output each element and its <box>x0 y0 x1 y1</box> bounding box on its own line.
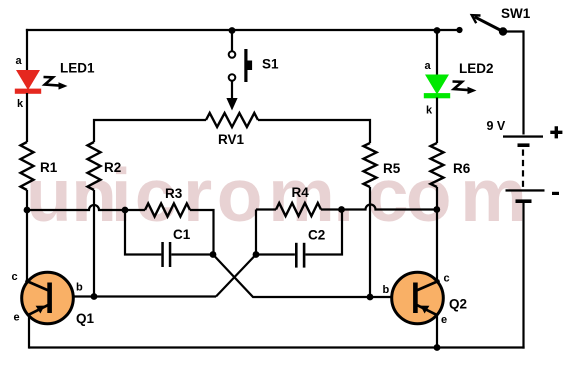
minus sign <box>552 192 559 195</box>
capacitor C2 <box>295 243 305 268</box>
svg-text:R5: R5 <box>383 161 401 176</box>
wire Q1 collector from rail <box>26 210 28 281</box>
plus sign <box>550 126 562 138</box>
capacitor C1 <box>161 242 171 267</box>
svg-text:LED1: LED1 <box>60 61 95 76</box>
svg-text:C1: C1 <box>173 227 191 242</box>
svg-text:C2: C2 <box>308 228 325 243</box>
LED1 light arrow <box>44 77 68 90</box>
wire R5 down to Q2 base <box>369 187 371 297</box>
potentiometer RV1 zigzag <box>206 113 258 127</box>
resistor R3 <box>145 204 190 217</box>
svg-text:SW1: SW1 <box>501 6 531 21</box>
wire S1 to RV1 wiper arrow <box>231 81 233 100</box>
node R2 / Q1 base <box>91 293 98 300</box>
wire Q1 base line <box>50 295 216 297</box>
wire LED1 to R1 <box>26 93 28 142</box>
svg-text:b: b <box>383 284 390 296</box>
svg-text:Q2: Q2 <box>449 297 467 312</box>
svg-text:e: e <box>14 312 20 324</box>
wire Q2 emitter down <box>436 315 438 348</box>
resistor R6 <box>431 143 444 187</box>
node LED2 top <box>434 27 441 34</box>
node C1 right / R3 <box>210 251 217 258</box>
svg-text:RV1: RV1 <box>218 132 245 147</box>
svg-text:R2: R2 <box>104 160 121 175</box>
wire SW1 to battery <box>503 32 524 135</box>
wire Q1 emitter down <box>28 315 30 349</box>
wire left drop to LED1 <box>26 29 28 71</box>
svg-text:a: a <box>16 55 23 67</box>
LED1 (red) <box>15 70 41 94</box>
node S1 top <box>229 27 236 34</box>
wire top rail <box>26 29 460 31</box>
svg-text:9 V: 9 V <box>487 119 506 133</box>
wire diagonal Q1-base to C2 junction <box>216 255 256 297</box>
svg-text:LED2: LED2 <box>459 61 494 76</box>
LED2 (green) <box>424 75 450 99</box>
wire LED2 to R6 <box>436 98 438 144</box>
resistor R5 <box>364 143 377 187</box>
svg-text:k: k <box>17 98 24 110</box>
svg-text:k: k <box>426 105 433 117</box>
resistor R2 <box>88 142 101 190</box>
LED2 light arrow <box>453 82 477 95</box>
transistor Q2 <box>392 272 444 324</box>
wire R3 right corner down <box>190 210 214 255</box>
wire battery to bottom rail <box>522 203 524 349</box>
node C1 left <box>122 207 129 214</box>
switch S1 branch <box>231 30 233 51</box>
battery 9V <box>503 135 545 203</box>
node R6 / Q2 collector <box>433 206 440 213</box>
switch SW1 <box>456 6 530 36</box>
svg-text:b: b <box>76 282 83 294</box>
wire C1 right <box>171 253 213 255</box>
svg-text:c: c <box>12 271 18 283</box>
node R5 / Q2 base <box>367 294 374 301</box>
wire RV1 rail right + R5 top <box>258 120 370 143</box>
svg-text:R6: R6 <box>453 161 471 176</box>
svg-text:R4: R4 <box>292 185 310 200</box>
svg-text:R1: R1 <box>40 160 58 175</box>
wire R6 down to Q2 collector <box>436 187 438 280</box>
wire C2 left branch from R4 <box>256 210 295 255</box>
node C2 right <box>338 206 345 213</box>
svg-text:c: c <box>444 273 450 285</box>
LED2 branch <box>436 30 438 75</box>
wire left rail with hop over R2 line <box>27 205 145 210</box>
wire R1 to rail <box>26 190 28 210</box>
transistor Q1 <box>22 272 74 324</box>
wire RV1 rail left + R2 top <box>94 120 206 142</box>
svg-text:Q1: Q1 <box>76 311 95 326</box>
S1 button bar <box>244 49 247 82</box>
node C2 left / R4 <box>253 251 260 258</box>
wire C2 right up to rail <box>305 210 342 255</box>
svg-text:R3: R3 <box>165 186 183 201</box>
wire diagonal C1-junction to Q2 base <box>213 255 416 298</box>
svg-text:e: e <box>441 314 447 326</box>
wire R2 down to Q1 base <box>93 190 95 297</box>
wire bottom rail <box>29 346 525 348</box>
resistor R1 <box>21 142 34 190</box>
resistor R4 <box>276 203 321 216</box>
wire C1 left branch <box>125 210 161 255</box>
node R1 bottom <box>24 207 31 214</box>
wire right rail with hop over R5 line <box>321 205 437 210</box>
node Q2 emitter / rail <box>434 344 441 351</box>
svg-text:a: a <box>425 60 432 72</box>
svg-text:S1: S1 <box>262 57 279 72</box>
wire R4 left rail <box>256 208 276 210</box>
